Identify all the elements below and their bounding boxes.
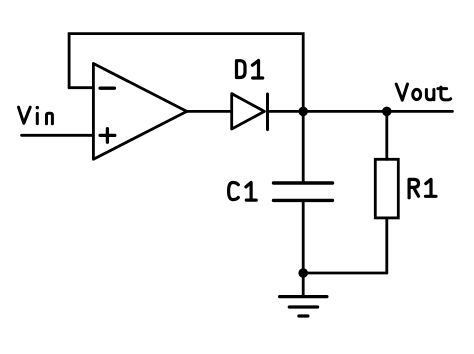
ground — [280, 297, 327, 316]
wire: resistor bottom to ground rail — [385, 218, 388, 273]
op-amp U1 — [93, 64, 186, 160]
node Vin (label) — [19, 106, 53, 124]
op-amp inverting input marker (-) — [100, 87, 114, 90]
label C1 — [229, 183, 257, 201]
junction: R1 top node — [382, 107, 392, 117]
diode D1 — [232, 94, 268, 130]
op-amp non-inverting input marker (+) — [100, 129, 115, 143]
wire: C1 bottom plate down to ground node — [302, 200, 305, 273]
junction: ground node — [298, 268, 308, 278]
node Vout (label) — [396, 84, 451, 100]
wire: op-amp output to diode anode — [187, 110, 232, 113]
capacitor C1 — [274, 183, 333, 200]
wire: ground node to ground symbol — [302, 273, 305, 297]
wire: node down to C1 top plate — [302, 111, 305, 183]
label D1 — [237, 61, 263, 79]
wire: diode cathode to output node — [268, 110, 304, 113]
wire: inverting input stub — [69, 86, 93, 89]
label R1 — [409, 179, 436, 197]
wire: feedback loop from output node up over the top to inverting input — [69, 34, 303, 112]
wire: output node to Vout terminal — [303, 110, 452, 113]
resistor R1 — [375, 159, 398, 218]
junction: diode/feedback/C1 node — [298, 107, 308, 117]
wire: Vin to op-amp non-inverting input — [22, 134, 94, 137]
wire: ground rail from C1 branch to R1 branch — [303, 272, 387, 275]
wire: R1 top node down to resistor — [385, 111, 388, 159]
